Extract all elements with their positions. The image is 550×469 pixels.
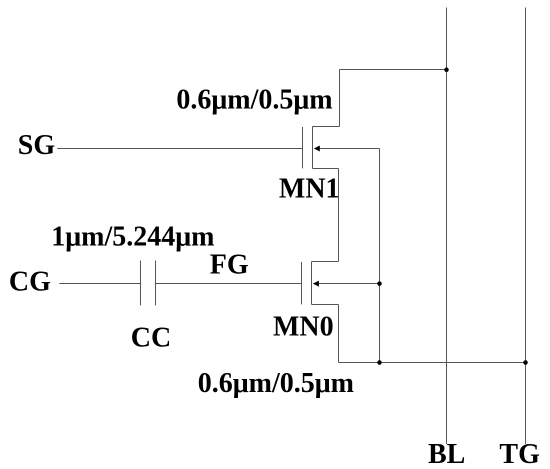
svg-text:0.6μm/0.5μm: 0.6μm/0.5μm [198,368,354,399]
junction dot at BL and top rail [444,68,449,73]
capacitor CC right plate [155,261,157,306]
wire: FG net horizontal [156,283,302,285]
wire: bottom source rail to TG [339,362,526,364]
wire: MN1 source to MN0 drain vertical [338,169,340,262]
junction dot at drop line and bottom rail [377,360,382,365]
transistor Q MN1 gate line [302,127,304,168]
wire: MN1 drain horizontal stub [313,126,340,128]
wire: MN0 bulk horizontal [314,283,380,285]
svg-text:MN0: MN0 [273,312,334,343]
wire: MN1 source horizontal stub [313,168,339,170]
svg-text:TG: TG [499,439,540,469]
wire: MN1 bulk horizontal [315,148,380,150]
transistor Q MN0 channel line [311,262,313,305]
svg-text:FG: FG [210,250,249,281]
svg-text:SG: SG [18,130,56,161]
net TG vertical line [525,8,527,445]
svg-text:0.6μm/0.5μm: 0.6μm/0.5μm [176,84,332,115]
transistor MN0 bulk arrow [313,281,319,287]
wire: MN0 drain horizontal stub [312,261,339,263]
wire: CG net horizontal [59,283,140,285]
wire: MN0 source horizontal stub [312,304,339,306]
capacitor CC left plate [140,261,142,306]
wire: MN1 drain vertical [339,70,341,127]
svg-text:1μm/5.244μm: 1μm/5.244μm [51,221,214,252]
wire: MN0 source vertical [338,305,340,363]
wire: MN1 drain top rail to BL [340,69,447,71]
net BL vertical line [446,8,448,445]
transistor Q MN0 gate line [301,262,303,304]
wire: bulk drop vertical to source rail [379,149,381,363]
junction dot at MN0 bulk and drop line [377,281,382,286]
svg-text:CG: CG [9,267,51,298]
wire: SG net horizontal [57,148,302,150]
transistor Q MN1 channel line [312,126,314,168]
svg-text:MN1: MN1 [279,173,340,204]
svg-text:BL: BL [428,439,465,469]
svg-text:CC: CC [131,322,171,353]
transistor MN1 bulk arrow [314,146,320,152]
junction dot at bottom rail and TG [523,360,528,365]
